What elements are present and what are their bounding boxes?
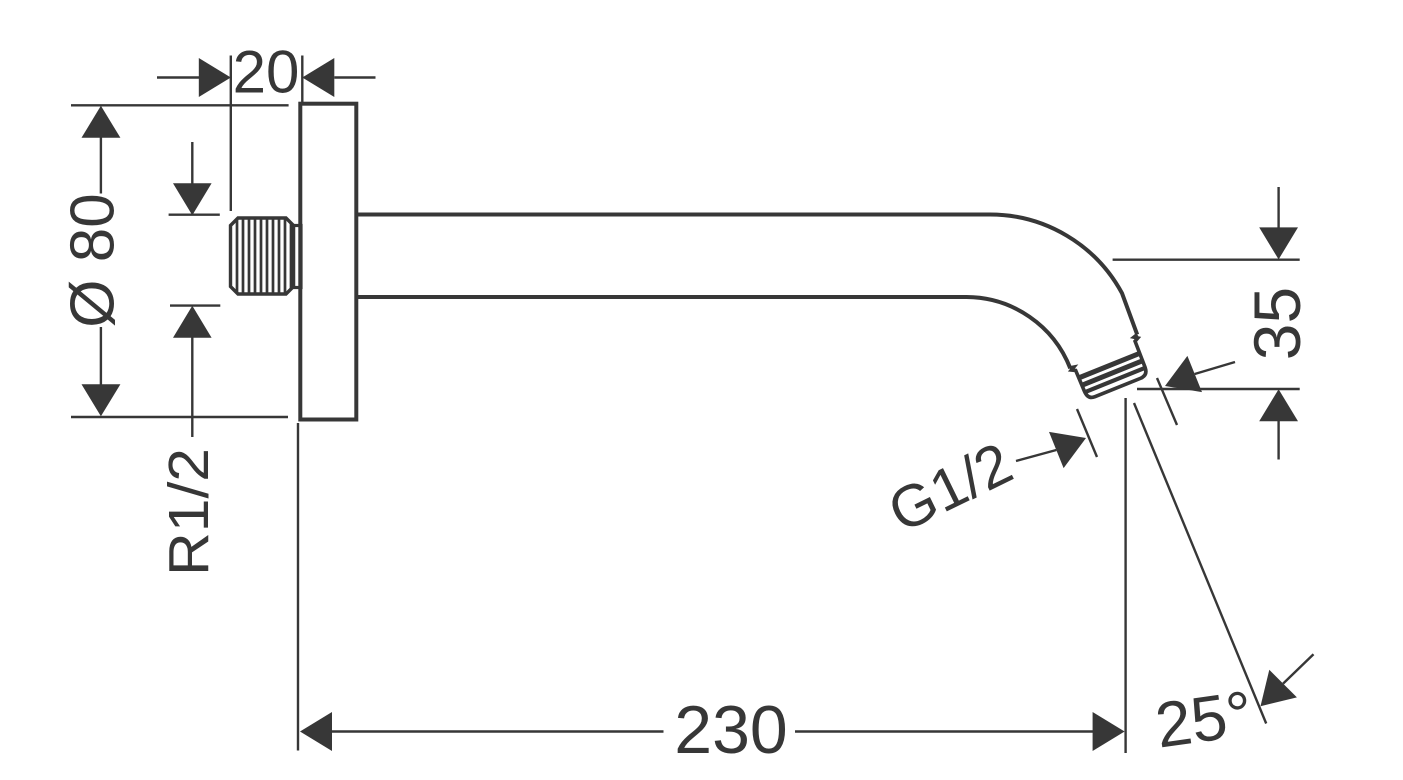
dia 80: dimension line lower shaft: [100, 327, 102, 385]
dia 80: top extension line: [71, 104, 289, 106]
dim 35: bottom tick: [1137, 388, 1300, 390]
arrow thread opposite (points down-left): [1165, 356, 1202, 392]
arrow G1/2 (points up-right): [1049, 432, 1086, 468]
arrow 230 right (points right): [1093, 712, 1125, 751]
svg-text:20: 20: [233, 39, 300, 106]
R1/2: bottom tick: [170, 304, 220, 306]
opposite thread arrow tail: [1195, 362, 1235, 374]
arrow 35 lower (points up): [1259, 389, 1298, 421]
dim 20: extension line left: [230, 56, 232, 212]
svg-text:R1/2: R1/2: [157, 448, 221, 576]
dim 230: left shaft: [331, 730, 664, 732]
arrow dia80 bottom (points down): [82, 384, 121, 416]
wall plate (escutcheon): [300, 104, 356, 420]
arrow 35 upper (points down): [1259, 227, 1298, 259]
dim 20: right tail: [334, 76, 375, 78]
arrow R1/2 lower (points up): [173, 306, 212, 338]
opposite thread tick: [1157, 378, 1177, 425]
arrow R1/2 upper (points down): [173, 183, 212, 215]
dia 80: dimension line upper shaft: [100, 138, 102, 194]
arrow dia80 top (points up): [82, 106, 121, 138]
dia 80: bottom extension line: [71, 416, 288, 418]
dim 20: extension line right (above plate): [301, 56, 303, 104]
knurled inlet connector outline: [231, 218, 294, 294]
arrow 25 deg (points down-left): [1261, 670, 1297, 706]
inlet collar between knurl and plate: [294, 226, 302, 288]
arm outer (top) outline: [357, 215, 1138, 335]
arm inner (bottom) outline: [357, 297, 1071, 368]
threaded outlet tip: [1068, 335, 1153, 402]
svg-text:230: 230: [674, 692, 787, 768]
svg-text:35: 35: [1240, 287, 1314, 360]
arrow 230 left (points left): [300, 712, 332, 751]
G1/2 leader tail: [1016, 450, 1056, 461]
svg-text:Ø 80: Ø 80: [59, 193, 128, 327]
dim 35: lower shaft: [1277, 420, 1279, 460]
25 deg angled line: [1134, 403, 1266, 724]
dim 230: right shaft: [795, 730, 1094, 732]
dim 35: top tick: [1113, 259, 1300, 261]
25 deg leader tail: [1283, 654, 1313, 683]
dim 230: right extension line: [1124, 398, 1126, 753]
svg-text:25°: 25°: [1151, 677, 1257, 762]
dim 35: upper shaft: [1277, 187, 1279, 229]
arrow 20 right (points left): [302, 58, 334, 97]
dim 230: left extension line: [297, 423, 299, 751]
R1/2: upper shaft: [191, 142, 193, 185]
G1/2 tick (axis-parallel): [1077, 409, 1097, 457]
R1/2: lower shaft: [191, 337, 193, 438]
arrow 20 left (points right): [199, 58, 231, 97]
dim 20: left tail: [157, 76, 199, 78]
R1/2: top tick: [169, 213, 220, 215]
